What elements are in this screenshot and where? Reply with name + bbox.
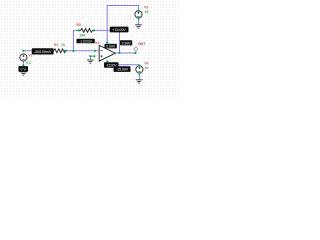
pin dot R1 right: [63, 50, 65, 52]
svg-text:R1: R1: [54, 43, 59, 47]
svg-text:X1: X1: [95, 41, 99, 45]
pin dot V3 top: [137, 10, 139, 12]
svg-text:-300.00mV: -300.00mV: [34, 50, 52, 54]
voltage source V4: [136, 66, 143, 73]
probe box -1.02mV: [77, 39, 95, 44]
wire R1 to op-amp inverting input: [65, 50, 96, 52]
ground at non-inverting input: [87, 60, 94, 63]
resistor R3: [79, 29, 95, 33]
svg-text:R3: R3: [77, 23, 82, 27]
probe box 2.99V: [120, 40, 132, 45]
probe box -300.00mV: [32, 48, 54, 54]
svg-text:-15.00V: -15.00V: [116, 68, 129, 72]
probe box +15.00V: [110, 27, 129, 33]
OUT connector diamond: [134, 47, 138, 53]
wire V3 bottom to ground: [138, 18, 140, 25]
wire V4 bottom to ground: [138, 73, 140, 80]
pin dot non-inverting input: [93, 55, 95, 57]
junction node output feedback: [118, 52, 120, 54]
junction node inverting input riser: [72, 50, 74, 52]
wire op-amp output to OUT: [115, 52, 135, 54]
junction dot non-inverting corner: [89, 55, 91, 57]
pin dot V4 bottom: [138, 73, 140, 75]
resistor R1: [53, 49, 68, 53]
wire riser to R3: [73, 30, 78, 50]
svg-text:V4: V4: [144, 61, 148, 65]
pin dot inverting input: [94, 50, 96, 52]
pin dot V-: [106, 60, 108, 62]
pin dot R3 left: [77, 29, 79, 31]
ground under V1: [20, 72, 27, 75]
wire V1 to R1: [23, 50, 53, 52]
svg-text:-1.02mV: -1.02mV: [79, 39, 92, 43]
svg-text:OUT: OUT: [138, 42, 146, 46]
wire V- supply to V4: [107, 62, 139, 67]
pin dot V+: [106, 42, 108, 44]
svg-text:0 V: 0 V: [21, 67, 27, 71]
svg-text:0.3: 0.3: [26, 61, 31, 65]
probe box -15.00V net: [114, 66, 131, 72]
svg-text:1k: 1k: [61, 43, 65, 47]
pin dot R1 left: [52, 50, 54, 52]
ground under V4: [136, 80, 143, 83]
svg-text:2.99V: 2.99V: [122, 41, 132, 45]
svg-text:15: 15: [145, 10, 149, 14]
voltage source V1: [20, 54, 27, 61]
pin dot OUT: [134, 52, 136, 54]
probe box 0V under V1: [18, 66, 28, 72]
pin dot V3 bottom: [137, 17, 139, 19]
ground under V3: [135, 25, 142, 28]
wire V+ supply to V3: [107, 6, 138, 44]
wire non-inverting input to ground: [90, 56, 94, 59]
pin dot V1 top: [22, 50, 24, 52]
probe box 5.00V: [105, 44, 117, 49]
op-amp X1: [95, 45, 115, 61]
wire R3 right to feedback drop: [94, 30, 120, 53]
svg-text:+15.00V: +15.00V: [113, 28, 127, 32]
wire V1 bottom to ground: [22, 61, 24, 68]
probe box -15.00V pin: [104, 62, 119, 67]
svg-text:15: 15: [144, 66, 148, 70]
pin dot V1 bottom: [22, 64, 24, 66]
pin dot V4 top: [138, 65, 140, 67]
svg-text:10K: 10K: [79, 34, 86, 38]
voltage source V3: [135, 11, 142, 18]
pin dot R3 right: [93, 29, 95, 31]
svg-text:5.00V: 5.00V: [106, 45, 116, 49]
